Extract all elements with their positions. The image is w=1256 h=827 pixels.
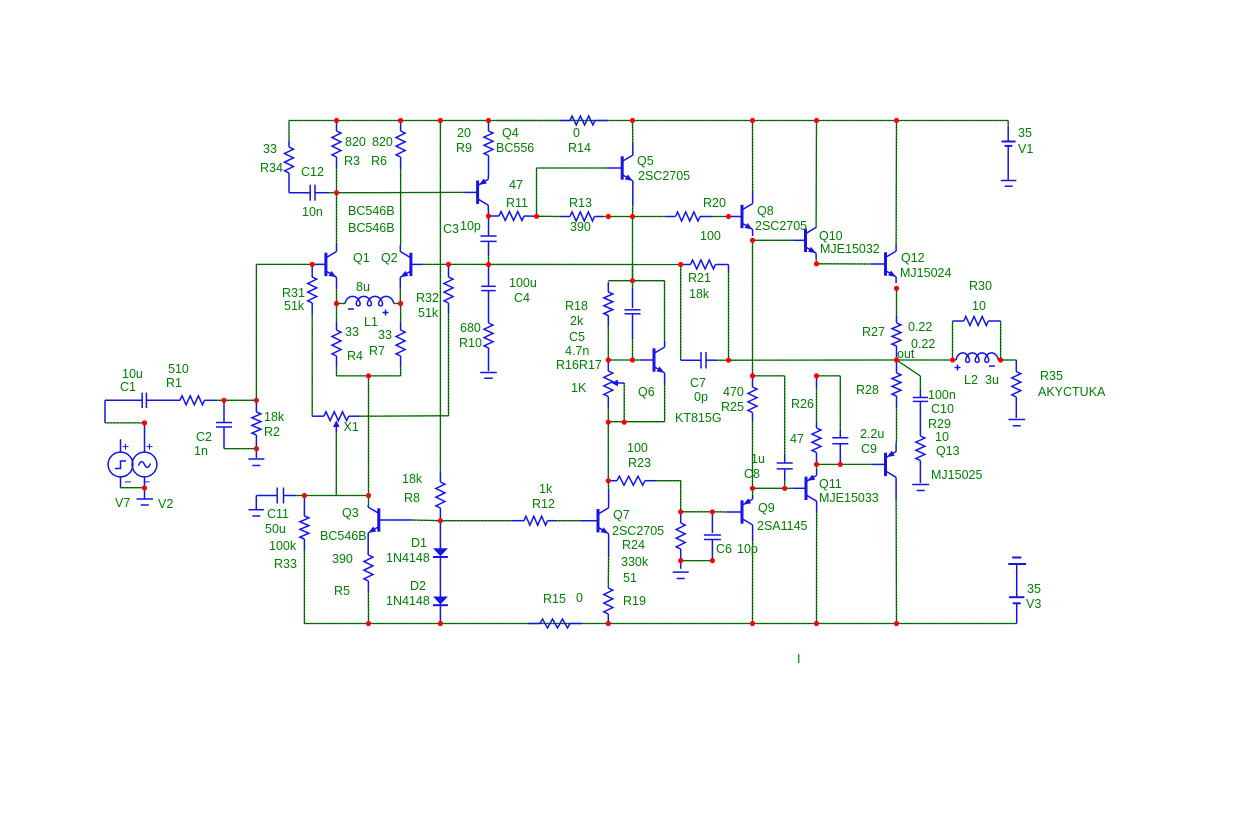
svg-text:2SC2705: 2SC2705 xyxy=(612,524,664,538)
svg-text:C1: C1 xyxy=(120,380,136,394)
svg-text:R20: R20 xyxy=(703,196,726,210)
svg-text:Q7: Q7 xyxy=(613,508,630,522)
svg-text:R9: R9 xyxy=(456,141,472,155)
svg-text:I: I xyxy=(797,652,800,666)
svg-text:1u: 1u xyxy=(751,452,765,466)
svg-text:330k: 330k xyxy=(621,555,649,569)
svg-text:L1: L1 xyxy=(364,315,378,329)
svg-text:51k: 51k xyxy=(418,306,439,320)
svg-text:R2: R2 xyxy=(264,425,280,439)
svg-text:390: 390 xyxy=(570,220,591,234)
svg-text:C6: C6 xyxy=(716,542,732,556)
svg-text:C2: C2 xyxy=(196,430,212,444)
svg-text:1n: 1n xyxy=(194,444,208,458)
svg-text:R33: R33 xyxy=(274,557,297,571)
svg-text:20: 20 xyxy=(457,126,471,140)
svg-text:100: 100 xyxy=(700,229,721,243)
svg-text:R26: R26 xyxy=(791,397,814,411)
svg-text:2SC2705: 2SC2705 xyxy=(638,169,690,183)
svg-text:680: 680 xyxy=(460,321,481,335)
svg-text:BC546B: BC546B xyxy=(348,204,395,218)
svg-text:18k: 18k xyxy=(689,287,710,301)
svg-text:C3: C3 xyxy=(443,222,459,236)
svg-text:Q1: Q1 xyxy=(353,251,370,265)
svg-text:R25: R25 xyxy=(721,400,744,414)
svg-text:D2: D2 xyxy=(410,579,426,593)
svg-text:KT815G: KT815G xyxy=(675,411,722,425)
svg-text:0.22: 0.22 xyxy=(911,337,935,351)
svg-text:10u: 10u xyxy=(122,367,143,381)
svg-text:1N4148: 1N4148 xyxy=(386,551,430,565)
svg-text:R14: R14 xyxy=(568,141,591,155)
svg-text:Q10: Q10 xyxy=(819,229,843,243)
svg-text:Q4: Q4 xyxy=(502,126,519,140)
svg-text:MJE15033: MJE15033 xyxy=(819,491,879,505)
svg-text:L2: L2 xyxy=(964,373,978,387)
svg-text:R27: R27 xyxy=(862,325,885,339)
svg-text:C12: C12 xyxy=(301,165,324,179)
svg-text:47: 47 xyxy=(509,178,523,192)
svg-text:R10: R10 xyxy=(459,336,482,350)
svg-text:Q11: Q11 xyxy=(819,477,842,491)
svg-text:C11: C11 xyxy=(267,507,289,521)
svg-text:R24: R24 xyxy=(622,538,645,552)
svg-text:C8: C8 xyxy=(744,467,760,481)
svg-text:R23: R23 xyxy=(628,456,651,470)
svg-text:R5: R5 xyxy=(334,584,350,598)
svg-text:R35: R35 xyxy=(1040,369,1063,383)
svg-text:R4: R4 xyxy=(347,349,363,363)
svg-text:Q12: Q12 xyxy=(901,251,925,265)
svg-text:10n: 10n xyxy=(302,205,323,219)
svg-text:R8: R8 xyxy=(404,491,420,505)
svg-text:820: 820 xyxy=(372,135,393,149)
svg-text:R29: R29 xyxy=(928,417,951,431)
svg-text:510: 510 xyxy=(168,362,189,376)
svg-text:2.2u: 2.2u xyxy=(860,427,884,441)
svg-text:0.22: 0.22 xyxy=(908,320,932,334)
svg-text:1N4148: 1N4148 xyxy=(386,594,430,608)
svg-text:R7: R7 xyxy=(369,344,385,358)
svg-text:Q8: Q8 xyxy=(757,204,774,218)
svg-text:Q2: Q2 xyxy=(381,251,398,265)
svg-text:R30: R30 xyxy=(969,279,992,293)
svg-text:10: 10 xyxy=(972,299,986,313)
svg-text:100: 100 xyxy=(627,441,648,455)
svg-text:33: 33 xyxy=(378,328,392,342)
svg-text:1k: 1k xyxy=(539,482,553,496)
svg-text:R11: R11 xyxy=(506,196,528,210)
svg-text:51: 51 xyxy=(623,571,637,585)
svg-text:R34: R34 xyxy=(260,161,283,175)
svg-text:1K: 1K xyxy=(571,381,587,395)
svg-text:R6: R6 xyxy=(371,154,387,168)
svg-text:MJE15032: MJE15032 xyxy=(820,242,880,256)
svg-text:R15: R15 xyxy=(543,592,566,606)
svg-text:C5: C5 xyxy=(569,330,585,344)
svg-text:AKYCTUKA: AKYCTUKA xyxy=(1038,385,1106,399)
svg-text:35: 35 xyxy=(1027,582,1041,596)
svg-text:470: 470 xyxy=(723,385,744,399)
svg-text:100u: 100u xyxy=(509,276,537,290)
svg-text:47: 47 xyxy=(790,432,804,446)
svg-text:BC546B: BC546B xyxy=(348,221,395,235)
svg-text:R3: R3 xyxy=(344,154,360,168)
svg-text:Q13: Q13 xyxy=(936,444,960,458)
svg-text:0p: 0p xyxy=(694,390,708,404)
svg-text:R16R17: R16R17 xyxy=(556,358,602,372)
svg-text:820: 820 xyxy=(345,135,366,149)
svg-text:50u: 50u xyxy=(265,522,286,536)
svg-text:33: 33 xyxy=(345,325,359,339)
svg-text:C10: C10 xyxy=(931,402,954,416)
svg-text:33: 33 xyxy=(263,142,277,156)
svg-text:V2: V2 xyxy=(158,497,173,511)
svg-text:R18: R18 xyxy=(565,299,588,313)
svg-text:V7: V7 xyxy=(115,496,130,510)
svg-text:out: out xyxy=(897,347,915,361)
svg-text:X1: X1 xyxy=(344,420,359,434)
svg-text:C9: C9 xyxy=(861,442,877,456)
svg-text:Q6: Q6 xyxy=(638,385,655,399)
svg-text:R21: R21 xyxy=(688,271,711,285)
svg-text:MJ15025: MJ15025 xyxy=(931,468,982,482)
svg-text:10: 10 xyxy=(935,430,949,444)
svg-text:D1: D1 xyxy=(411,536,427,550)
svg-text:0: 0 xyxy=(576,591,583,605)
svg-text:R12: R12 xyxy=(532,497,555,511)
svg-text:C4: C4 xyxy=(514,291,530,305)
svg-text:3u: 3u xyxy=(985,373,999,387)
svg-text:18k: 18k xyxy=(402,472,423,486)
svg-text:R32: R32 xyxy=(416,291,439,305)
svg-text:100k: 100k xyxy=(269,539,297,553)
svg-text:Q5: Q5 xyxy=(637,154,654,168)
svg-text:100n: 100n xyxy=(928,388,956,402)
svg-text:V3: V3 xyxy=(1026,597,1041,611)
svg-text:35: 35 xyxy=(1018,126,1032,140)
svg-text:2SA1145: 2SA1145 xyxy=(757,519,808,533)
svg-text:R13: R13 xyxy=(569,196,592,210)
svg-text:BC556: BC556 xyxy=(496,141,534,155)
svg-text:R28: R28 xyxy=(856,383,879,397)
svg-text:R19: R19 xyxy=(623,594,646,608)
svg-text:0: 0 xyxy=(573,126,580,140)
svg-text:V1: V1 xyxy=(1018,142,1033,156)
svg-text:18k: 18k xyxy=(264,410,285,424)
svg-text:Q3: Q3 xyxy=(342,506,359,520)
svg-text:R1: R1 xyxy=(166,376,182,390)
svg-text:4.7n: 4.7n xyxy=(565,344,589,358)
svg-text:C7: C7 xyxy=(690,376,706,390)
svg-text:MJ15024: MJ15024 xyxy=(900,266,951,280)
svg-text:51k: 51k xyxy=(284,299,305,313)
svg-text:R31: R31 xyxy=(282,286,305,300)
svg-text:BC546B: BC546B xyxy=(320,529,367,543)
svg-text:2SC2705: 2SC2705 xyxy=(755,219,807,233)
svg-text:8u: 8u xyxy=(356,280,370,294)
svg-text:Q9: Q9 xyxy=(758,501,775,515)
svg-text:10p: 10p xyxy=(737,542,758,556)
svg-text:2k: 2k xyxy=(570,314,584,328)
svg-text:390: 390 xyxy=(332,552,353,566)
svg-text:10p: 10p xyxy=(460,219,481,233)
